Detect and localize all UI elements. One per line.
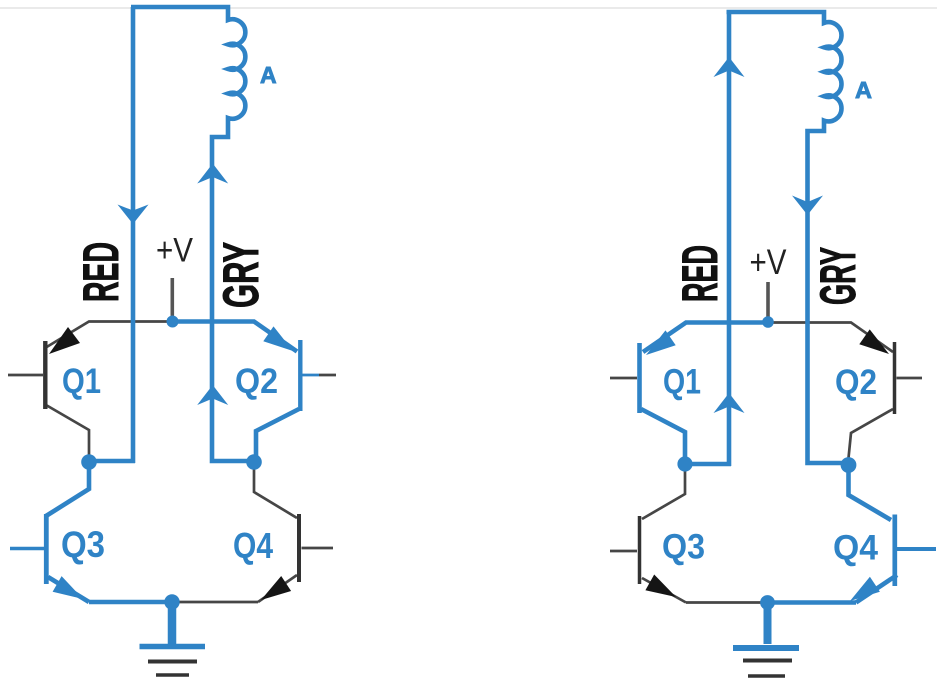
svg-text:Q1: Q1 xyxy=(62,362,101,401)
svg-text:GRY: GRY xyxy=(810,247,866,305)
svg-text:+V: +V xyxy=(156,232,193,270)
svg-text:RED: RED xyxy=(73,242,129,302)
svg-text:Q2: Q2 xyxy=(235,362,278,401)
svg-text:Q1: Q1 xyxy=(663,363,701,402)
svg-text:RED: RED xyxy=(672,245,728,302)
svg-text:A: A xyxy=(260,62,277,88)
svg-text:Q4: Q4 xyxy=(833,529,879,568)
svg-text:+V: +V xyxy=(750,243,788,282)
svg-text:A: A xyxy=(855,77,872,103)
svg-text:Q3: Q3 xyxy=(61,524,105,565)
svg-text:Q3: Q3 xyxy=(662,528,705,567)
svg-text:Q4: Q4 xyxy=(233,525,273,566)
svg-text:Q2: Q2 xyxy=(835,363,877,402)
svg-text:GRY: GRY xyxy=(213,242,269,308)
